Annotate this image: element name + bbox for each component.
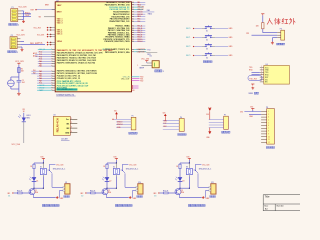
svg-text:5V0: 5V0 bbox=[114, 111, 117, 113]
svg-text:USB_DM: USB_DM bbox=[137, 7, 144, 9]
svg-text:PD2: PD2 bbox=[140, 80, 143, 82]
svg-text:D2: D2 bbox=[109, 180, 111, 182]
svg-text:K2: K2 bbox=[113, 166, 115, 168]
svg-text:PB13G: PB13G bbox=[137, 39, 143, 41]
svg-text:WIFI: WIFI bbox=[249, 93, 254, 95]
svg-text:10K: 10K bbox=[21, 30, 24, 32]
svg-text:VCC_5V0: VCC_5V0 bbox=[202, 164, 209, 166]
svg-text:VCC_3V3: VCC_3V3 bbox=[17, 34, 25, 36]
svg-text:PC2: PC2 bbox=[39, 56, 42, 58]
svg-text:Q2: Q2 bbox=[108, 190, 110, 192]
svg-text:VCC_3V3: VCC_3V3 bbox=[37, 35, 44, 37]
svg-text:S3: S3 bbox=[206, 48, 208, 50]
svg-text:IO3: IO3 bbox=[154, 195, 156, 197]
svg-text:PB3: PB3 bbox=[137, 19, 140, 21]
svg-text:PB14/SPI2_MISO/TIM1_CH2N: PB14/SPI2_MISO/TIM1_CH2N bbox=[105, 40, 131, 43]
svg-text:IN2: IN2 bbox=[66, 128, 69, 130]
svg-text:KEY2: KEY2 bbox=[186, 46, 190, 48]
svg-text:SWCLK: SWCLK bbox=[137, 14, 144, 16]
svg-text:8050: 8050 bbox=[35, 192, 39, 194]
svg-text:RX2: RX2 bbox=[163, 126, 166, 128]
svg-text:104: 104 bbox=[22, 82, 25, 84]
svg-text:VCC_5V0: VCC_5V0 bbox=[19, 7, 27, 9]
svg-text:OSC_IN/OSC_OUT: OSC_IN/OSC_OUT bbox=[57, 89, 74, 91]
svg-text:U4: U4 bbox=[266, 64, 268, 66]
svg-text:IN3: IN3 bbox=[153, 193, 156, 195]
svg-text:PD0: PD0 bbox=[140, 77, 143, 79]
svg-text:R8: R8 bbox=[23, 109, 25, 111]
svg-text:OSC_IN: OSC_IN bbox=[39, 49, 46, 51]
svg-text:PB11_RX3: PB11_RX3 bbox=[30, 43, 38, 45]
svg-text:K3: K3 bbox=[186, 166, 188, 168]
svg-text:PB14H: PB14H bbox=[137, 41, 143, 43]
svg-text:P10: P10 bbox=[138, 182, 141, 184]
svg-text:P8: P8 bbox=[266, 107, 268, 109]
svg-text:R7 4.7K: R7 4.7K bbox=[163, 190, 168, 192]
svg-text:Title: Title bbox=[265, 195, 270, 199]
svg-text:P5: P5 bbox=[132, 116, 134, 118]
svg-text:P3: P3 bbox=[280, 28, 282, 30]
svg-text:PC3: PC3 bbox=[39, 59, 42, 61]
svg-text:OSC_OUT: OSC_OUT bbox=[121, 79, 131, 81]
svg-text:USB_DP: USB_DP bbox=[137, 9, 143, 11]
svg-text:SRD-05VDC-SL-C: SRD-05VDC-SL-C bbox=[53, 168, 66, 170]
svg-text:8050: 8050 bbox=[108, 192, 112, 194]
svg-text:NRST: NRST bbox=[45, 5, 49, 7]
svg-text:PD1: PD1 bbox=[140, 78, 143, 80]
svg-text:SRD-05VDC-SL-C: SRD-05VDC-SL-C bbox=[126, 168, 139, 170]
svg-text:SWCLK: SWCLK bbox=[117, 124, 124, 126]
svg-text:OSC32: OSC32 bbox=[39, 87, 44, 89]
svg-text:TX2: TX2 bbox=[163, 123, 166, 125]
svg-text:IN2: IN2 bbox=[80, 193, 83, 195]
svg-text:SWDIO: SWDIO bbox=[117, 121, 123, 123]
svg-text:P7: P7 bbox=[224, 114, 226, 116]
svg-text:R10: R10 bbox=[132, 90, 135, 92]
svg-text:SWDIO: SWDIO bbox=[137, 11, 143, 13]
svg-text:PC1: PC1 bbox=[39, 54, 42, 56]
svg-text:TXD_3V3: TXD_3V3 bbox=[249, 78, 256, 80]
svg-text:PB9_E: PB9_E bbox=[137, 34, 142, 36]
svg-text:P6: P6 bbox=[180, 117, 182, 119]
svg-text:8050: 8050 bbox=[181, 192, 185, 194]
svg-text:VCC_3V3: VCC_3V3 bbox=[34, 28, 41, 30]
svg-text:S1: S1 bbox=[206, 30, 208, 32]
svg-text:5V0: 5V0 bbox=[206, 114, 209, 116]
svg-text:VCC_3V3: VCC_3V3 bbox=[15, 61, 23, 63]
svg-text:PA9: PA9 bbox=[147, 9, 150, 12]
svg-text:Q3: Q3 bbox=[181, 190, 183, 192]
svg-text:R5 4.7K: R5 4.7K bbox=[17, 190, 22, 192]
svg-text:KEY1: KEY1 bbox=[186, 37, 190, 39]
svg-text:PC0: PC0 bbox=[39, 52, 42, 54]
svg-text:IN1: IN1 bbox=[33, 70, 36, 72]
svg-text:S4: S4 bbox=[206, 57, 208, 59]
svg-text:P2: P2 bbox=[11, 35, 13, 37]
svg-text:VCC_5V0: VCC_5V0 bbox=[12, 144, 20, 146]
svg-text:PA10: PA10 bbox=[148, 13, 152, 16]
svg-text:5V0: 5V0 bbox=[240, 111, 243, 113]
svg-text:OSC32: OSC32 bbox=[39, 85, 44, 87]
svg-text:D1: D1 bbox=[36, 180, 38, 182]
svg-text:Number: Number bbox=[277, 205, 284, 207]
svg-text:S2: S2 bbox=[206, 39, 208, 41]
svg-text:SRD-05VDC-SL-C: SRD-05VDC-SL-C bbox=[199, 168, 212, 170]
svg-text:VCC_5V0: VCC_5V0 bbox=[129, 164, 136, 166]
svg-text:VCC_5V0: VCC_5V0 bbox=[56, 164, 63, 166]
svg-text:PC5/ADC12_IN15_GPIO_C5: PC5/ADC12_IN15_GPIO_C5 bbox=[57, 77, 80, 80]
svg-text:P11: P11 bbox=[211, 182, 214, 184]
svg-text:U6: U6 bbox=[150, 55, 152, 57]
svg-text:PB8_D: PB8_D bbox=[137, 32, 143, 34]
svg-text:PB4: PB4 bbox=[137, 21, 140, 23]
svg-text:GND: GND bbox=[65, 132, 70, 134]
svg-text:PB4/NJTRST/TIM3_CH1: PB4/NJTRST/TIM3_CH1 bbox=[109, 20, 129, 23]
svg-text:PB12F: PB12F bbox=[137, 37, 142, 39]
svg-text:P1: P1 bbox=[12, 7, 14, 9]
svg-text:LED1: LED1 bbox=[26, 115, 30, 117]
svg-text:5V0: 5V0 bbox=[163, 112, 166, 114]
svg-text:R6 4.7K: R6 4.7K bbox=[90, 190, 95, 192]
svg-text:VDDA: VDDA bbox=[57, 40, 63, 43]
svg-text:IO2: IO2 bbox=[81, 195, 83, 197]
svg-text:TX3: TX3 bbox=[147, 49, 150, 51]
svg-text:Q1: Q1 bbox=[35, 190, 37, 192]
svg-text:RELAY-4CH: RELAY-4CH bbox=[56, 118, 59, 132]
svg-text:IN1: IN1 bbox=[66, 123, 69, 125]
svg-text:KEY3: KEY3 bbox=[186, 55, 190, 57]
svg-text:PC4: PC4 bbox=[39, 83, 42, 85]
svg-text:KEY0: KEY0 bbox=[186, 28, 190, 30]
svg-text:IO1: IO1 bbox=[8, 195, 10, 197]
svg-text:PA4/SPI1_NSS/USART2_CK/ADC12_I: PA4/SPI1_NSS/USART2_CK/ADC12_IN4_PA4 bbox=[57, 62, 95, 65]
svg-text:TXD1: TXD1 bbox=[25, 15, 29, 17]
svg-text:VDD_3: VDD_3 bbox=[57, 23, 63, 25]
svg-text:PB6_B: PB6_B bbox=[137, 28, 142, 30]
svg-text:D3: D3 bbox=[182, 180, 184, 182]
svg-text:PB7_C: PB7_C bbox=[137, 30, 143, 32]
svg-text:VSS_3: VSS_3 bbox=[57, 34, 63, 36]
svg-text:RST: RST bbox=[31, 10, 34, 12]
svg-text:IN1: IN1 bbox=[7, 193, 10, 195]
svg-text:IN2: IN2 bbox=[33, 72, 36, 74]
svg-text:K1: K1 bbox=[40, 166, 42, 168]
svg-text:RXD1: RXD1 bbox=[25, 12, 30, 14]
svg-text:P9: P9 bbox=[65, 182, 67, 184]
svg-text:U3: U3 bbox=[53, 115, 55, 117]
